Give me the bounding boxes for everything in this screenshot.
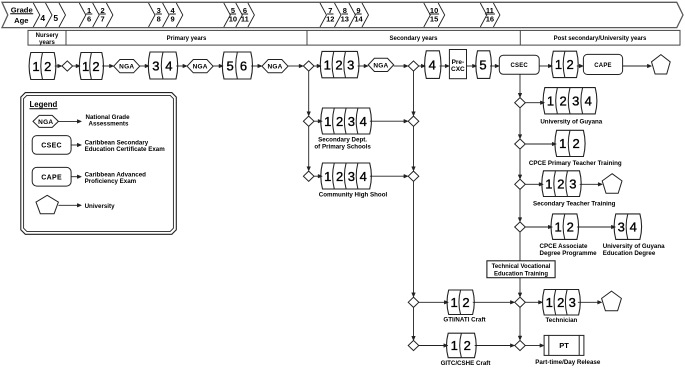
svg-text:1: 1 <box>82 59 89 74</box>
svg-text:1: 1 <box>324 114 331 129</box>
svg-text:5: 5 <box>479 57 486 72</box>
svg-text:1: 1 <box>32 59 39 74</box>
svg-text:3: 3 <box>618 220 625 235</box>
svg-text:Post secondary/University year: Post secondary/University years <box>554 36 647 42</box>
svg-text:2: 2 <box>335 57 342 72</box>
svg-text:12: 12 <box>326 15 334 24</box>
svg-text:NGA: NGA <box>373 62 388 69</box>
svg-text:3: 3 <box>572 94 579 109</box>
svg-text:10: 10 <box>430 6 438 15</box>
svg-text:1: 1 <box>87 6 91 15</box>
svg-text:2: 2 <box>44 59 51 74</box>
svg-text:4: 4 <box>165 58 172 73</box>
svg-text:CPCE Associate: CPCE Associate <box>540 243 588 250</box>
svg-text:9: 9 <box>356 6 360 15</box>
svg-text:5: 5 <box>53 13 58 23</box>
svg-text:5: 5 <box>231 6 235 15</box>
svg-text:2: 2 <box>464 338 471 353</box>
svg-text:Legend: Legend <box>30 100 58 109</box>
svg-text:Technical Vocational: Technical Vocational <box>492 264 551 270</box>
svg-text:Nursery: Nursery <box>36 33 59 39</box>
svg-text:Education Certificate Exam: Education Certificate Exam <box>85 146 166 153</box>
svg-text:10: 10 <box>229 15 237 24</box>
svg-text:4: 4 <box>585 94 592 109</box>
svg-text:Community High Shool: Community High Shool <box>319 191 388 198</box>
svg-text:Degree Programme: Degree Programme <box>540 250 598 257</box>
svg-text:3: 3 <box>569 177 576 192</box>
svg-text:1: 1 <box>546 295 553 310</box>
svg-text:2: 2 <box>557 295 564 310</box>
svg-text:1: 1 <box>555 57 562 72</box>
svg-text:3: 3 <box>569 295 576 310</box>
svg-text:7: 7 <box>328 6 332 15</box>
svg-text:2: 2 <box>92 59 99 74</box>
svg-text:Part-time/Day Release: Part-time/Day Release <box>535 359 601 366</box>
svg-text:2: 2 <box>559 94 566 109</box>
svg-text:1: 1 <box>547 94 554 109</box>
svg-text:NGA: NGA <box>267 64 282 71</box>
svg-text:1: 1 <box>545 177 552 192</box>
svg-text:2: 2 <box>557 177 564 192</box>
svg-text:Age: Age <box>14 16 28 25</box>
svg-text:Technician: Technician <box>545 317 577 324</box>
svg-text:4: 4 <box>360 114 367 129</box>
svg-text:CXC: CXC <box>451 66 465 73</box>
svg-text:2: 2 <box>101 6 105 15</box>
svg-text:University of Guyana: University of Guyana <box>603 243 665 250</box>
svg-text:PT: PT <box>559 341 569 350</box>
svg-text:9: 9 <box>171 15 175 24</box>
svg-text:4: 4 <box>630 220 637 235</box>
svg-text:Education Training: Education Training <box>494 271 548 277</box>
svg-text:CSEC: CSEC <box>41 143 62 150</box>
svg-text:NGA: NGA <box>38 119 53 126</box>
svg-text:1: 1 <box>451 338 458 353</box>
svg-text:GTI/NATI Craft: GTI/NATI Craft <box>443 317 485 324</box>
svg-text:Secondary years: Secondary years <box>389 36 438 42</box>
svg-text:2: 2 <box>567 220 574 235</box>
svg-text:6: 6 <box>240 58 247 73</box>
svg-text:3: 3 <box>347 57 354 72</box>
svg-text:2: 2 <box>336 114 343 129</box>
svg-text:15: 15 <box>430 15 438 24</box>
svg-text:4: 4 <box>360 169 367 184</box>
svg-text:16: 16 <box>486 15 494 24</box>
svg-text:NGA: NGA <box>193 64 208 71</box>
svg-text:6: 6 <box>243 6 247 15</box>
svg-text:CAPE: CAPE <box>41 174 62 181</box>
svg-text:5: 5 <box>226 58 233 73</box>
svg-text:Assessments: Assessments <box>89 121 129 128</box>
svg-text:Education Degree: Education Degree <box>603 250 656 257</box>
svg-text:11: 11 <box>486 6 494 15</box>
svg-text:8: 8 <box>343 6 347 15</box>
svg-text:University: University <box>85 203 115 210</box>
svg-text:1: 1 <box>324 169 331 184</box>
svg-text:2: 2 <box>566 57 573 72</box>
svg-text:7: 7 <box>101 15 105 24</box>
svg-text:2: 2 <box>572 136 579 151</box>
svg-text:Primary years: Primary years <box>167 36 207 42</box>
svg-text:Grade: Grade <box>11 5 33 14</box>
svg-text:CSEC: CSEC <box>510 63 528 69</box>
svg-text:6: 6 <box>87 15 91 24</box>
svg-text:4: 4 <box>429 57 436 72</box>
svg-text:1: 1 <box>559 136 566 151</box>
svg-text:years: years <box>39 40 55 46</box>
svg-text:3: 3 <box>348 114 355 129</box>
svg-text:4: 4 <box>40 13 45 23</box>
svg-text:NGA: NGA <box>119 64 134 71</box>
svg-text:11: 11 <box>241 15 249 24</box>
svg-text:1: 1 <box>450 295 457 310</box>
svg-text:2: 2 <box>336 169 343 184</box>
svg-text:3: 3 <box>348 169 355 184</box>
svg-text:1: 1 <box>554 220 561 235</box>
svg-text:3: 3 <box>152 58 159 73</box>
svg-text:University of Guyana: University of Guyana <box>540 119 602 126</box>
svg-text:GITC/CSHE Craft: GITC/CSHE Craft <box>441 360 491 367</box>
svg-text:8: 8 <box>157 15 161 24</box>
svg-text:3: 3 <box>157 6 161 15</box>
svg-text:2: 2 <box>462 295 469 310</box>
svg-text:1: 1 <box>324 57 331 72</box>
svg-text:Proficiency Exam: Proficiency Exam <box>85 178 137 185</box>
svg-text:Secondary Teacher Training: Secondary Teacher Training <box>533 201 616 208</box>
svg-text:CPCE Primary Teacher Training: CPCE Primary Teacher Training <box>529 160 622 167</box>
svg-text:13: 13 <box>341 15 349 24</box>
svg-text:of Primary Schools: of Primary Schools <box>314 143 371 150</box>
svg-text:14: 14 <box>354 15 363 24</box>
svg-text:CAPE: CAPE <box>594 63 611 69</box>
